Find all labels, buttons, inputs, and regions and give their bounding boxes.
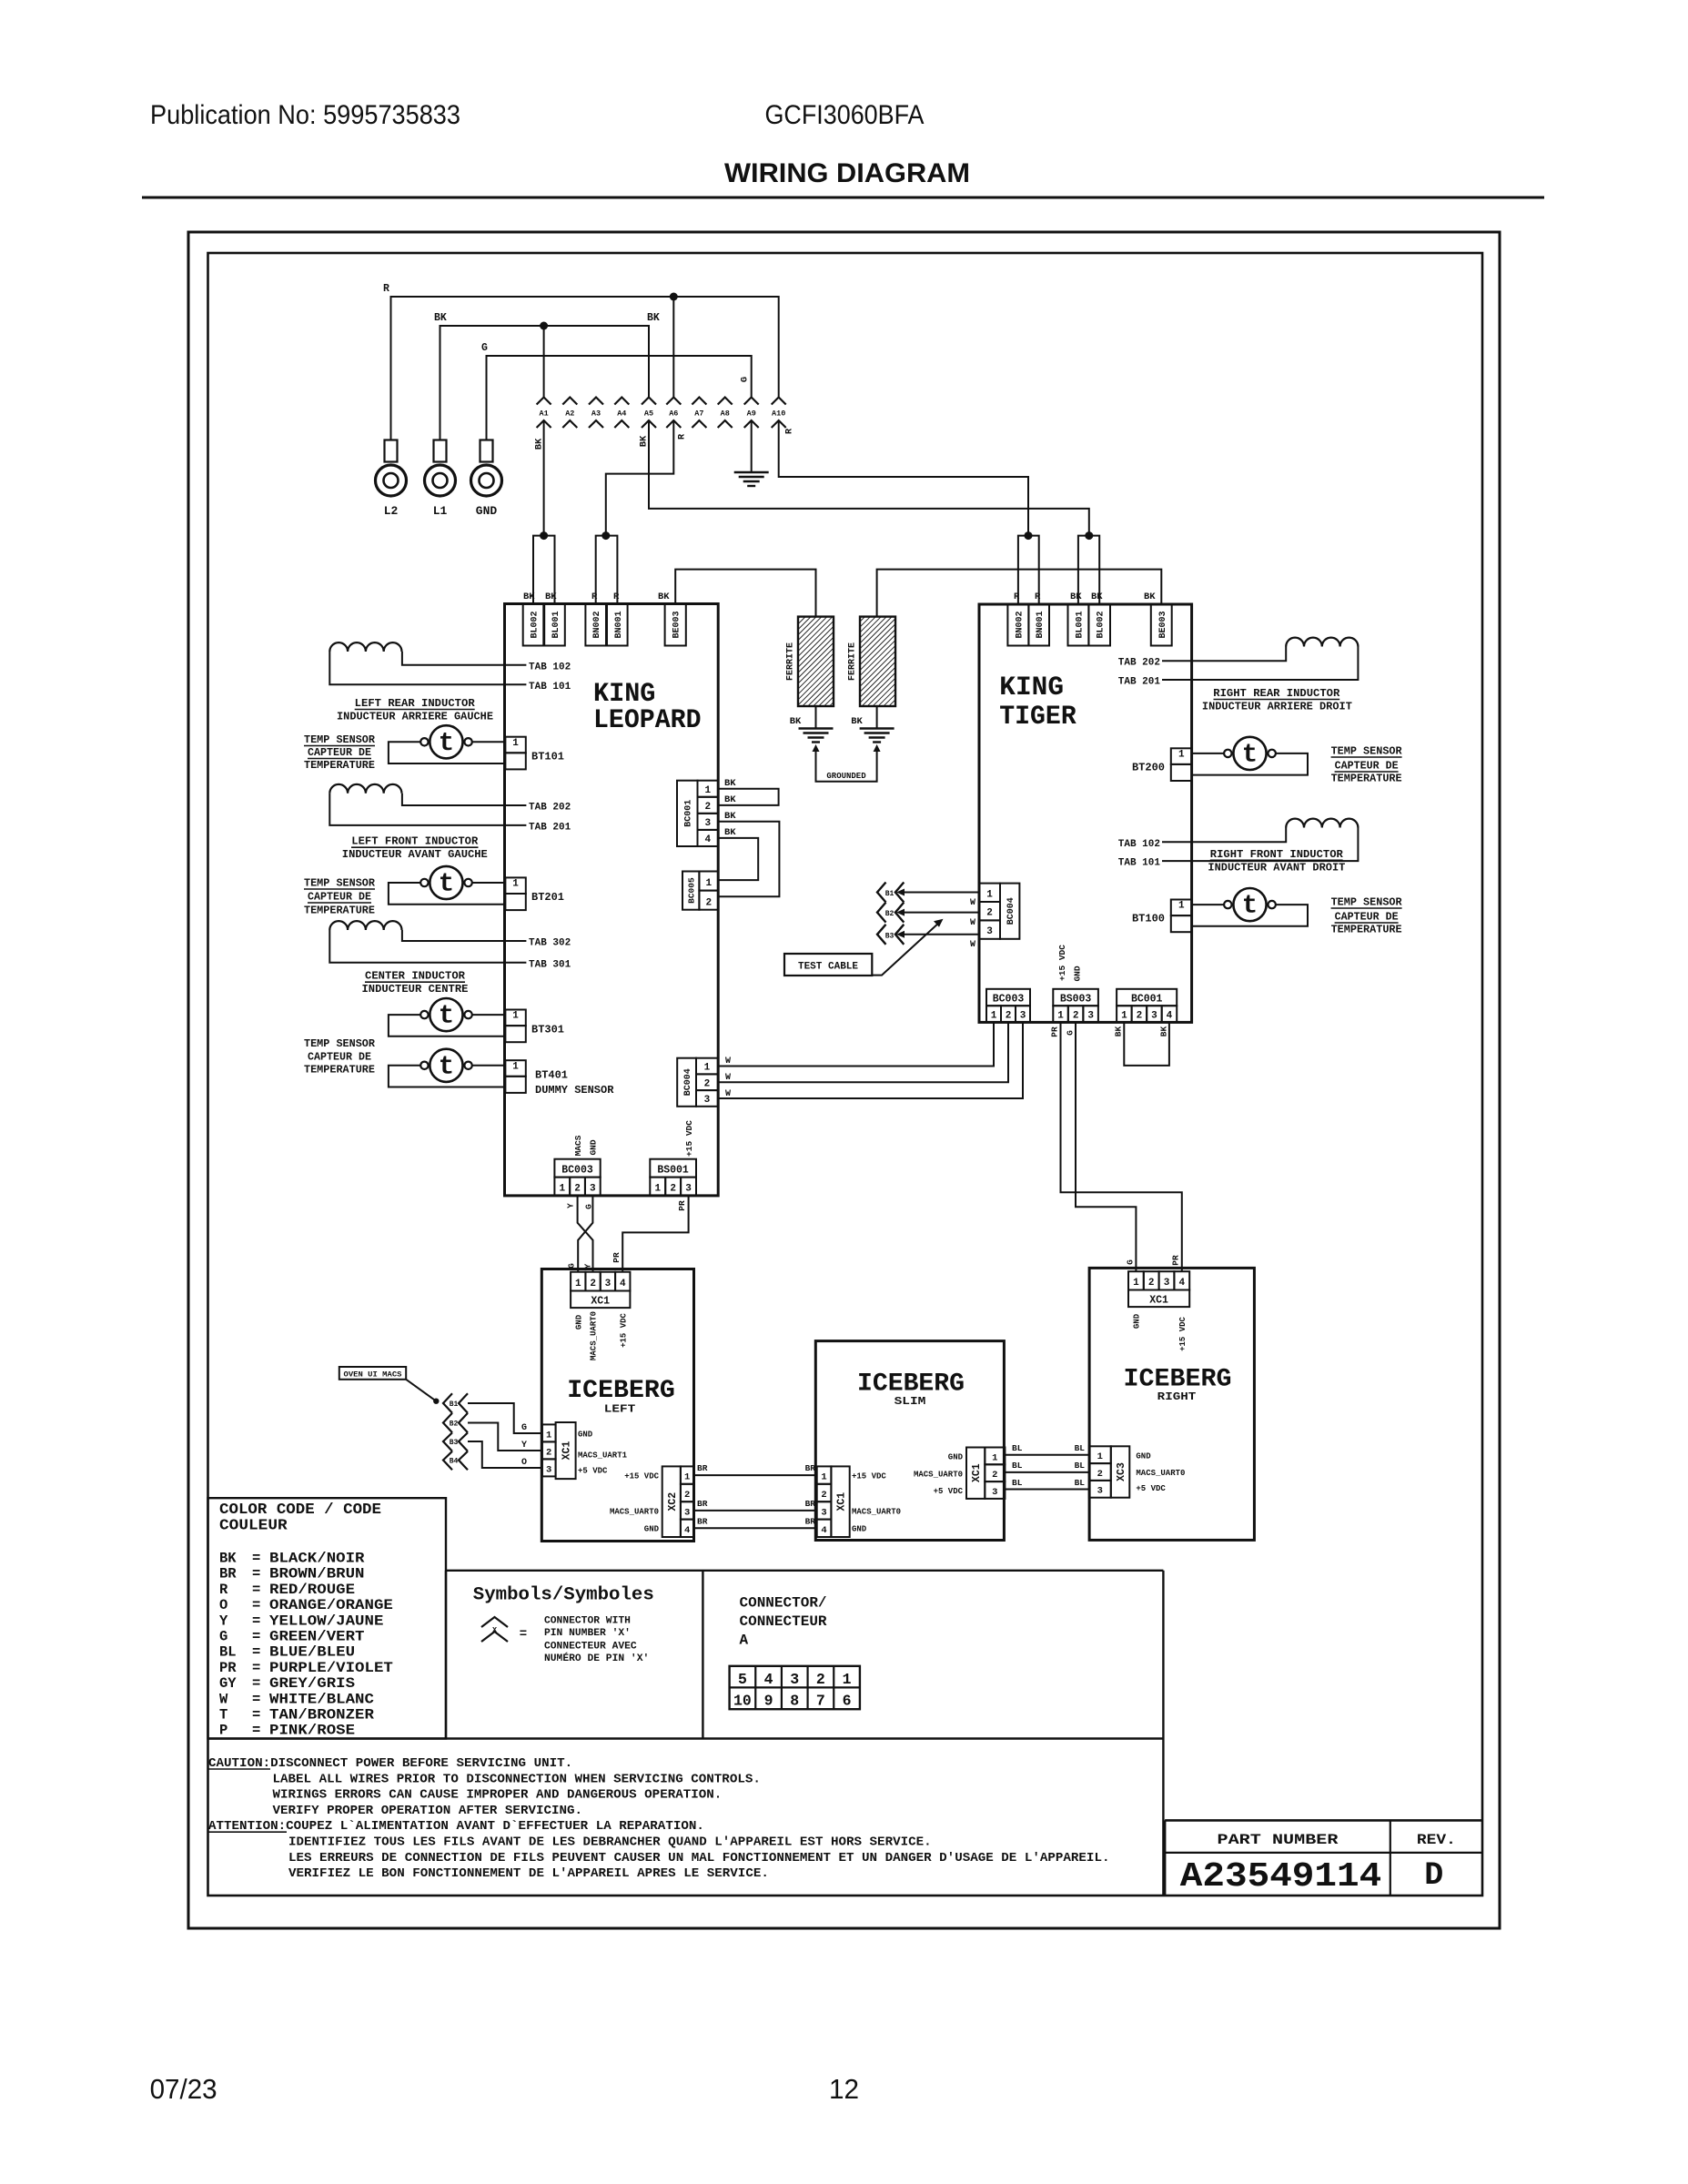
svg-text:t: t	[439, 869, 454, 899]
svg-text:TEMPERATURE: TEMPERATURE	[304, 1065, 375, 1077]
connector pin A5 chevron symbol	[642, 398, 656, 405]
svg-text:G: G	[583, 1204, 593, 1209]
connector XC2 on Iceberg Left right edge	[662, 1466, 681, 1537]
svg-text:BK: BK	[434, 312, 447, 324]
svg-text:LEFT: LEFT	[604, 1403, 636, 1416]
wire from A1 down to BL002/BL001 junction	[543, 420, 545, 536]
svg-text:BK: BK	[851, 716, 863, 727]
svg-text:BT401: BT401	[535, 1069, 568, 1082]
svg-text:1: 1	[546, 1430, 551, 1441]
svg-text:BK: BK	[724, 778, 736, 789]
svg-text:1: 1	[1133, 1278, 1139, 1289]
junction bar above King Tiger BL001/BL002 with dot	[1078, 536, 1099, 604]
svg-text:PINK/ROSE: PINK/ROSE	[269, 1723, 355, 1739]
connector pin A6 chevron symbol	[666, 398, 681, 405]
svg-text:A2: A2	[565, 409, 574, 419]
svg-text:ICEBERG: ICEBERG	[567, 1377, 675, 1405]
svg-text:2: 2	[986, 908, 993, 919]
svg-text:=: =	[252, 1644, 260, 1661]
svg-text:A: A	[740, 1633, 749, 1649]
svg-text:BK: BK	[724, 794, 736, 805]
svg-text:BR: BR	[697, 1517, 708, 1527]
svg-text:ICEBERG: ICEBERG	[1124, 1365, 1232, 1393]
connector BC004 on King Tiger left edge	[1000, 884, 1019, 939]
svg-text:BR: BR	[697, 1499, 708, 1509]
svg-text:=: =	[252, 1551, 260, 1567]
connector BN002 on King Tiger top	[1007, 604, 1028, 646]
svg-text:TAB 101: TAB 101	[529, 682, 571, 693]
svg-text:BL: BL	[1012, 1443, 1023, 1453]
svg-text:BT101: BT101	[531, 751, 564, 763]
temp sensor BT201 (t)	[430, 866, 462, 899]
svg-text:GROUNDED: GROUNDED	[826, 772, 866, 781]
svg-text:NUMÉRO DE PIN 'X': NUMÉRO DE PIN 'X'	[544, 1652, 649, 1664]
svg-text:CENTER INDUCTOR: CENTER INDUCTOR	[365, 971, 465, 983]
temp sensor BT301 (t)	[430, 998, 462, 1031]
svg-text:BL: BL	[1075, 1478, 1086, 1488]
svg-text:TAB 102: TAB 102	[529, 662, 571, 673]
connector chevron B2	[877, 903, 886, 923]
svg-text:BL001: BL001	[1075, 611, 1085, 638]
svg-text:3: 3	[546, 1464, 551, 1475]
wire W B1 to BC004 pin1 with arrowhead	[900, 892, 979, 894]
svg-text:A7: A7	[694, 409, 703, 419]
svg-text:GND: GND	[578, 1431, 593, 1440]
svg-text:MACS: MACS	[573, 1135, 583, 1156]
svg-text:3: 3	[1087, 1011, 1094, 1022]
junction bar above BN002/BN001 with dot	[596, 536, 618, 604]
svg-text:1: 1	[1178, 749, 1185, 760]
svg-text:BL: BL	[1075, 1461, 1086, 1471]
svg-text:4: 4	[764, 1671, 773, 1688]
wire BL Slim pin1 to XC3 pin1	[1005, 1454, 1089, 1456]
svg-text:BS003: BS003	[1060, 994, 1092, 1006]
svg-text:2: 2	[1006, 1011, 1012, 1022]
wire W BC004 pin2 to King Tiger BC003 pin2	[718, 1022, 1008, 1082]
OVEN UI MACS callout box	[339, 1367, 406, 1380]
temp sensor BT100 (t)	[1233, 888, 1266, 921]
svg-text:CONNECTEUR: CONNECTEUR	[740, 1613, 827, 1630]
arrow from TEST CABLE to BC004 wires	[872, 922, 940, 976]
svg-text:BL002: BL002	[531, 611, 541, 638]
connector XC3 on Iceberg Right left edge	[1089, 1446, 1111, 1463]
svg-text:BK: BK	[724, 811, 736, 822]
svg-text:1: 1	[559, 1184, 565, 1195]
svg-text:=: =	[252, 1707, 260, 1724]
svg-text:R: R	[784, 428, 795, 434]
svg-text:2: 2	[1137, 1011, 1143, 1022]
wire G from B1 to XC1 left pin1	[468, 1403, 542, 1433]
svg-text:+15 VDC: +15 VDC	[684, 1120, 694, 1157]
wire PR from BS001 pin3 to Iceberg Left XC1 pin4	[622, 1196, 688, 1272]
svg-text:INDUCTEUR AVANT DROIT: INDUCTEUR AVANT DROIT	[1208, 863, 1345, 875]
svg-text:=: =	[252, 1723, 260, 1739]
svg-text:BR: BR	[805, 1463, 816, 1473]
svg-text:GND: GND	[1072, 966, 1082, 981]
svg-text:BN002: BN002	[592, 611, 602, 638]
svg-text:t: t	[1242, 891, 1258, 921]
svg-text:LES ERREURS DE CONNECTION DE F: LES ERREURS DE CONNECTION DE FILS PEUVEN…	[288, 1851, 1109, 1865]
svg-text:BL: BL	[1012, 1478, 1023, 1488]
svg-text:G: G	[481, 342, 488, 354]
svg-text:1: 1	[684, 1472, 690, 1483]
svg-text:GY: GY	[219, 1675, 237, 1692]
King Tiger board box	[979, 604, 1192, 1022]
svg-text:B1: B1	[450, 1400, 459, 1409]
svg-text:BK: BK	[219, 1551, 237, 1567]
svg-text:D: D	[1424, 1857, 1443, 1894]
svg-text:GND: GND	[852, 1525, 867, 1534]
svg-text:4: 4	[821, 1525, 826, 1536]
svg-text:1: 1	[512, 1061, 519, 1072]
outer border frame	[188, 232, 1500, 1928]
color code legend box	[208, 1498, 447, 1738]
svg-text:ICEBERG: ICEBERG	[857, 1370, 965, 1399]
svg-text:B1: B1	[885, 890, 895, 898]
svg-text:A5: A5	[644, 409, 653, 419]
svg-text:BR: BR	[697, 1463, 708, 1473]
svg-text:W: W	[725, 1073, 731, 1083]
svg-text:PR: PR	[612, 1252, 622, 1263]
svg-text:MACS_UART0: MACS_UART0	[914, 1470, 963, 1479]
junction dot R wire above A6	[670, 293, 678, 301]
svg-text:G: G	[521, 1423, 527, 1433]
svg-text:WHITE/BLANC: WHITE/BLANC	[269, 1691, 374, 1707]
svg-text:TEMPERATURE: TEMPERATURE	[1331, 773, 1402, 785]
svg-text:XC1: XC1	[971, 1463, 983, 1482]
connector BC004 on King Leopard right edge	[677, 1058, 696, 1107]
wire ferrite 1 bottom to ground	[815, 706, 817, 729]
svg-text:3: 3	[605, 1279, 612, 1289]
wire W B3 to BC004 pin3 with arrowhead	[900, 934, 979, 935]
svg-text:=: =	[252, 1566, 260, 1582]
svg-text:3: 3	[704, 818, 711, 829]
svg-text:3: 3	[790, 1671, 799, 1688]
svg-text:1: 1	[1057, 1011, 1064, 1022]
svg-text:ORANGE/ORANGE: ORANGE/ORANGE	[269, 1597, 393, 1613]
terminal L2	[385, 440, 398, 462]
svg-text:2: 2	[1097, 1469, 1103, 1480]
Iceberg Left board box	[541, 1269, 693, 1542]
svg-text:CAPTEUR DE: CAPTEUR DE	[308, 747, 371, 759]
svg-text:2: 2	[816, 1671, 825, 1688]
connector BC005 on King Leopard right edge	[682, 872, 699, 910]
svg-text:=: =	[252, 1597, 260, 1613]
svg-text:TEMPERATURE: TEMPERATURE	[1331, 925, 1402, 936]
svg-text:BC005: BC005	[687, 877, 697, 904]
svg-text:PURPLE/VIOLET: PURPLE/VIOLET	[269, 1660, 393, 1676]
svg-text:1: 1	[654, 1184, 661, 1195]
connector XC1 on Iceberg Slim left edge	[817, 1466, 832, 1483]
svg-text:CONNECTEUR AVEC: CONNECTEUR AVEC	[544, 1642, 637, 1653]
connector ladder B1	[443, 1393, 452, 1413]
connector pin A7 chevron symbol	[692, 398, 706, 405]
svg-text:1: 1	[991, 1011, 997, 1022]
svg-text:3: 3	[1151, 1011, 1157, 1022]
temp sensor BT200 (t)	[1233, 737, 1266, 770]
svg-text:BS001: BS001	[657, 1165, 689, 1177]
svg-text:TAB 201: TAB 201	[529, 823, 571, 834]
connector pin A2 chevron symbol	[562, 398, 577, 405]
svg-text:TEMP SENSOR: TEMP SENSOR	[304, 1038, 375, 1050]
wire O from B3 to XC1 left pin3	[468, 1441, 542, 1468]
connector XC1 on Iceberg Slim right edge	[966, 1448, 985, 1499]
underline CAUTION	[208, 1768, 270, 1770]
connector BS001 on King Leopard bottom	[650, 1159, 696, 1178]
svg-text:4: 4	[704, 834, 711, 845]
svg-text:BT200: BT200	[1132, 762, 1165, 774]
svg-text:MACS_UART1: MACS_UART1	[578, 1451, 628, 1461]
svg-text:5: 5	[738, 1671, 747, 1688]
svg-text:BC003: BC003	[561, 1165, 593, 1177]
svg-text:2: 2	[670, 1184, 676, 1195]
svg-text:KING: KING	[999, 672, 1064, 703]
svg-text:3: 3	[684, 1507, 690, 1518]
svg-text:BL002: BL002	[1097, 611, 1107, 638]
connector pin A4 chevron symbol	[614, 398, 629, 405]
svg-text:BR: BR	[805, 1499, 816, 1509]
svg-text:PIN NUMBER 'X': PIN NUMBER 'X'	[544, 1628, 631, 1639]
svg-text:A4: A4	[617, 409, 626, 419]
svg-text:PR: PR	[219, 1660, 237, 1676]
svg-text:BL: BL	[1075, 1443, 1086, 1453]
wire BK loop under King Tiger BC001 pin1-pin4	[1124, 1022, 1169, 1066]
connector BC003 on King Tiger bottom	[986, 989, 1030, 1006]
connector BC001 on King Leopard right edge	[677, 781, 698, 846]
svg-text:BLACK/NOIR: BLACK/NOIR	[269, 1551, 365, 1567]
wire G from King Tiger BS003 pin2 to Iceberg Right XC1 pin1	[1076, 1022, 1136, 1271]
svg-text:Publication No: 5995735833: Publication No: 5995735833	[150, 100, 460, 130]
svg-text:Symbols/Symboles: Symbols/Symboles	[473, 1585, 654, 1606]
svg-text:2: 2	[684, 1490, 690, 1501]
svg-text:TAB 201: TAB 201	[1118, 677, 1161, 688]
svg-text:=: =	[252, 1613, 260, 1629]
svg-text:+5 VDC: +5 VDC	[934, 1487, 964, 1496]
wire W B2 to BC004 pin2 with arrowhead	[900, 912, 979, 914]
svg-text:07/23: 07/23	[150, 2073, 217, 2105]
svg-text:GND: GND	[476, 504, 498, 518]
connector XC1 on Iceberg Left left edge	[542, 1424, 556, 1441]
svg-text:1: 1	[986, 889, 993, 900]
connector chevron B3	[877, 925, 886, 945]
svg-text:L2: L2	[384, 504, 399, 518]
svg-text:CAPTEUR DE: CAPTEUR DE	[308, 892, 371, 904]
connector A pin-number table	[730, 1666, 860, 1709]
svg-text:WIRINGS ERRORS CAN CAUSE IMPRO: WIRINGS ERRORS CAN CAUSE IMPROPER AND DA…	[273, 1788, 723, 1803]
svg-text:1: 1	[992, 1452, 997, 1463]
svg-text:B2: B2	[450, 1421, 459, 1429]
svg-text:BL: BL	[219, 1644, 237, 1661]
svg-text:1: 1	[704, 785, 711, 796]
svg-text:3: 3	[986, 926, 993, 937]
svg-text:=: =	[252, 1629, 260, 1645]
svg-text:CAPTEUR DE: CAPTEUR DE	[1335, 912, 1399, 924]
svg-text:PR: PR	[1170, 1255, 1180, 1266]
svg-text:G: G	[1065, 1030, 1075, 1036]
svg-text:4: 4	[1167, 1011, 1173, 1022]
svg-text:W: W	[970, 940, 975, 950]
svg-text:A10: A10	[772, 409, 785, 419]
connector pin A8 chevron symbol	[718, 398, 733, 405]
svg-text:B2: B2	[885, 910, 895, 918]
wire ferrite2 top to King Tiger BE003	[877, 570, 1162, 617]
connector pin A3 chevron symbol	[589, 398, 603, 405]
svg-text:GND: GND	[948, 1453, 964, 1462]
svg-text:TAB 202: TAB 202	[529, 803, 571, 814]
svg-text:9: 9	[764, 1693, 773, 1710]
svg-text:BT100: BT100	[1132, 913, 1165, 925]
wire ferrite 2 bottom to ground	[876, 706, 878, 729]
inner border frame	[208, 253, 1483, 1896]
ferrite 1 hatched box	[798, 617, 834, 706]
svg-text:BN001: BN001	[1036, 611, 1046, 638]
svg-text:TAB 302: TAB 302	[529, 938, 571, 949]
wire BC001 pin4 to BC005 pin1	[718, 838, 758, 880]
svg-text:XC1: XC1	[836, 1492, 848, 1512]
svg-text:A1: A1	[539, 409, 548, 419]
svg-text:A8: A8	[721, 409, 730, 419]
wire R from L2 to A10 and junction at A6	[391, 297, 779, 440]
svg-text:BC001: BC001	[684, 800, 694, 827]
svg-text:BLUE/BLEU: BLUE/BLEU	[269, 1644, 355, 1661]
svg-text:TEMP SENSOR: TEMP SENSOR	[304, 734, 375, 746]
svg-text:W: W	[970, 898, 975, 908]
temp sensor BT401 dummy (t)	[430, 1049, 462, 1082]
svg-text:DUMMY SENSOR: DUMMY SENSOR	[535, 1084, 614, 1097]
svg-text:FERRITE: FERRITE	[786, 642, 796, 681]
svg-text:BC004: BC004	[683, 1068, 693, 1096]
svg-text:=: =	[252, 1675, 260, 1692]
connector BN001 on King Leopard top	[607, 604, 628, 646]
connector ladder B3	[443, 1432, 452, 1451]
svg-text:INDUCTEUR ARRIERE GAUCHE: INDUCTEUR ARRIERE GAUCHE	[337, 712, 493, 723]
svg-text:PART NUMBER: PART NUMBER	[1218, 1832, 1339, 1848]
svg-text:XC3: XC3	[1116, 1462, 1127, 1481]
svg-text:BN001: BN001	[614, 611, 624, 638]
wire Y from B2 to XC1 left pin2	[468, 1423, 542, 1451]
svg-text:BL: BL	[1012, 1461, 1023, 1471]
svg-text:R: R	[591, 591, 598, 602]
svg-text:+5 VDC: +5 VDC	[578, 1467, 608, 1476]
wire W BC004 pin3 to King Tiger BC003 pin3	[718, 1022, 1023, 1098]
svg-text:1: 1	[1097, 1451, 1103, 1462]
svg-text:1: 1	[821, 1472, 826, 1483]
wire BK from L1 to A5 and junction above A1	[440, 326, 650, 440]
wire from A9 down to ground	[751, 420, 753, 472]
svg-text:TAN/BRONZER: TAN/BRONZER	[269, 1707, 375, 1724]
svg-text:BR: BR	[805, 1517, 816, 1527]
svg-text:R: R	[677, 433, 688, 440]
svg-text:BK: BK	[647, 312, 660, 324]
svg-text:3: 3	[821, 1507, 826, 1518]
svg-text:BK: BK	[523, 591, 535, 602]
svg-text:CONNECTOR WITH: CONNECTOR WITH	[544, 1616, 631, 1627]
svg-text:3: 3	[992, 1487, 997, 1498]
svg-text:+15 VDC: +15 VDC	[852, 1472, 886, 1481]
svg-text:TEMP SENSOR: TEMP SENSOR	[1331, 745, 1402, 757]
part number and revision table	[1165, 1819, 1482, 1822]
right rear inductor coil	[1286, 638, 1358, 647]
junction bar above King Tiger BN002/BN001 with dot	[1018, 536, 1039, 604]
svg-text:4: 4	[620, 1279, 626, 1289]
junction bar above BL002/BL001 with dot	[533, 536, 555, 604]
svg-text:X: X	[492, 1626, 498, 1635]
svg-text:BROWN/BRUN: BROWN/BRUN	[269, 1566, 365, 1582]
connector BE003 on King Tiger top	[1151, 604, 1172, 646]
svg-text:BC001: BC001	[1131, 994, 1163, 1006]
wire G from GND terminal to A9	[487, 356, 752, 440]
svg-text:BR: BR	[219, 1566, 237, 1582]
svg-text:10: 10	[733, 1693, 752, 1710]
svg-text:GND: GND	[1133, 1313, 1142, 1329]
svg-text:3: 3	[1164, 1278, 1170, 1289]
svg-text:BL001: BL001	[551, 611, 561, 638]
svg-text:BK: BK	[790, 716, 802, 727]
svg-text:BE003: BE003	[1158, 611, 1168, 638]
connector BS003 on King Tiger bottom	[1053, 989, 1098, 1006]
svg-text:GCFI3060BFA: GCFI3060BFA	[765, 100, 925, 130]
svg-text:GREEN/VERT: GREEN/VERT	[269, 1629, 365, 1645]
svg-text:W: W	[725, 1057, 731, 1067]
wire G from BC003 pin3 crossing to Iceberg Left XC1 pin1	[578, 1196, 592, 1272]
svg-text:BK: BK	[1158, 1026, 1168, 1037]
svg-text:COULEUR: COULEUR	[219, 1517, 288, 1534]
connector BE003 on King Leopard top	[665, 604, 686, 646]
svg-text:GND: GND	[574, 1314, 583, 1330]
svg-text:VERIFY PROPER OPERATION AFTER: VERIFY PROPER OPERATION AFTER SERVICING.	[273, 1804, 583, 1818]
svg-text:TIGER: TIGER	[999, 702, 1076, 733]
wire from A6 down left to BN002/BN001 junction	[606, 420, 674, 536]
svg-text:TEMPERATURE: TEMPERATURE	[304, 905, 375, 917]
svg-text:CONNECTOR/: CONNECTOR/	[740, 1595, 827, 1612]
svg-text:CAPTEUR DE: CAPTEUR DE	[308, 1052, 371, 1064]
svg-text:+15 VDC: +15 VDC	[624, 1472, 659, 1481]
svg-text:1: 1	[704, 1063, 711, 1074]
svg-text:=: =	[252, 1582, 260, 1598]
svg-text:LEFT REAR INDUCTOR: LEFT REAR INDUCTOR	[355, 698, 475, 710]
center inductor coil	[329, 921, 401, 930]
svg-text:7: 7	[816, 1693, 825, 1710]
svg-text:A23549114: A23549114	[1180, 1857, 1382, 1896]
wire BR XC2 pin3 to Slim XC1 pin3	[694, 1510, 817, 1512]
wire W BC004 pin1 to King Tiger BC003 pin1	[718, 1022, 994, 1066]
svg-text:3: 3	[590, 1184, 596, 1195]
ground symbol under ferrite 1	[799, 727, 834, 729]
svg-text:TAB 102: TAB 102	[1118, 839, 1160, 850]
svg-text:BC003: BC003	[993, 994, 1025, 1006]
svg-text:R: R	[383, 283, 389, 295]
leader line from OVEN UI MACS to B1 ladder	[406, 1380, 436, 1401]
svg-text:B3: B3	[450, 1439, 459, 1447]
grounded link wire with up arrows	[816, 748, 877, 782]
left rear inductor coil	[329, 642, 401, 652]
svg-text:LEFT FRONT INDUCTOR: LEFT FRONT INDUCTOR	[351, 836, 478, 848]
terminal GND	[480, 440, 493, 462]
svg-text:1: 1	[512, 879, 519, 890]
svg-text:=: =	[252, 1691, 260, 1707]
svg-text:TAB 202: TAB 202	[1118, 658, 1160, 669]
wire PR from King Tiger BS003 pin1 to Iceberg Right XC1 pin4	[1061, 1022, 1182, 1271]
svg-text:2: 2	[705, 897, 712, 908]
svg-text:G: G	[566, 1263, 576, 1269]
svg-text:Y: Y	[219, 1613, 228, 1629]
svg-text:TAB 301: TAB 301	[529, 960, 571, 971]
svg-text:RED/ROUGE: RED/ROUGE	[269, 1582, 355, 1598]
svg-text:BK: BK	[545, 591, 557, 602]
svg-text:3: 3	[685, 1184, 692, 1195]
svg-text:GND: GND	[644, 1525, 660, 1534]
svg-text:=: =	[520, 1627, 527, 1642]
